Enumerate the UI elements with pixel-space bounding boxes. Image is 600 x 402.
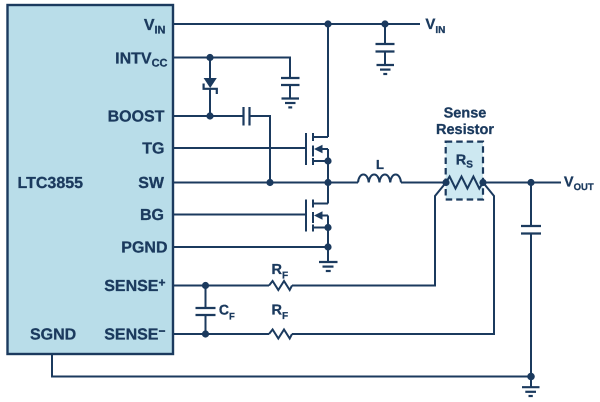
node Q2 source/body junction <box>324 224 331 231</box>
node RS left <box>442 179 449 186</box>
svg-text:BOOST: BOOST <box>108 109 165 126</box>
wire TG line <box>173 147 306 149</box>
resistor RF2 <box>269 330 292 339</box>
wire inductor to sense resistor <box>401 182 446 184</box>
wire ground stub <box>530 377 532 387</box>
node RS right <box>479 179 486 186</box>
svg-text:BG: BG <box>140 207 164 224</box>
svg-text:VOUT: VOUT <box>564 174 594 193</box>
svg-text:TG: TG <box>142 141 164 158</box>
wire SENSE+ line <box>173 285 269 287</box>
ground under C_INTVCC <box>282 99 300 108</box>
node VIN rail / Q1 drain junction <box>324 20 331 27</box>
node PGND junction <box>324 243 331 250</box>
capacitor C_INTVCC <box>281 78 300 99</box>
svg-text:CF: CF <box>219 302 235 323</box>
svg-text:L: L <box>376 157 384 172</box>
node SW / bootstrap junction <box>266 179 273 186</box>
wire BG line <box>173 214 306 216</box>
ground under Q2 <box>319 262 338 271</box>
wire PGND line <box>173 246 328 248</box>
node Q1 source/body junction <box>324 157 331 164</box>
node SENSE- / CF junction <box>202 330 209 337</box>
inductor L <box>358 175 401 183</box>
wire SW line <box>173 182 358 184</box>
wire SGND return <box>52 354 531 377</box>
node INTVCC / zener junction <box>206 54 213 61</box>
node SW / FET junction <box>324 179 331 186</box>
zener diode D1 <box>204 58 217 117</box>
capacitor COUT <box>521 183 541 377</box>
wire RF1 to RS left kelvin <box>292 183 446 286</box>
node BOOST / zener junction <box>206 112 213 119</box>
svg-text:VIN: VIN <box>425 16 445 36</box>
svg-text:SGND: SGND <box>30 327 76 344</box>
svg-text:Resistor: Resistor <box>436 122 494 138</box>
node SENSE+ / CF junction <box>202 282 209 289</box>
node VOUT / COUT junction <box>527 179 534 186</box>
ground bottom right <box>522 387 540 396</box>
svg-text:RF: RF <box>272 262 289 282</box>
svg-text:Sense: Sense <box>444 105 487 121</box>
svg-text:SENSE+: SENSE+ <box>104 276 165 296</box>
wire SENSE- line <box>173 333 269 335</box>
node VIN rail / CIN junction <box>381 20 388 27</box>
resistor RS <box>446 177 483 189</box>
wire VOUT line <box>483 182 561 184</box>
capacitor CF <box>196 286 216 335</box>
sense resistor dashed box <box>446 142 483 200</box>
wire VIN rail <box>173 23 420 25</box>
wire bootstrap cap to SW <box>250 116 271 183</box>
svg-text:PGND: PGND <box>121 240 167 257</box>
node SGND / ground junction <box>527 373 535 381</box>
wire BOOST line <box>173 115 243 117</box>
wire top MOSFET drain to VIN rail <box>327 24 329 137</box>
capacitor C_BOOST bootstrap <box>244 107 250 126</box>
svg-text:SENSE−: SENSE− <box>104 324 165 344</box>
svg-text:RF: RF <box>272 302 289 322</box>
wire INTVCC line <box>173 58 290 79</box>
transistor Q2 bottom NMOS <box>306 183 328 263</box>
svg-text:SW: SW <box>138 175 165 192</box>
wire RF2 to RS right kelvin <box>292 183 494 335</box>
svg-text:LTC3855: LTC3855 <box>18 175 84 192</box>
resistor RF1 <box>269 281 292 290</box>
capacitor CIN <box>376 24 395 65</box>
ground under CIN <box>377 65 395 74</box>
IC U1 LTC3855 body <box>8 5 174 354</box>
transistor Q1 top NMOS <box>306 133 328 183</box>
